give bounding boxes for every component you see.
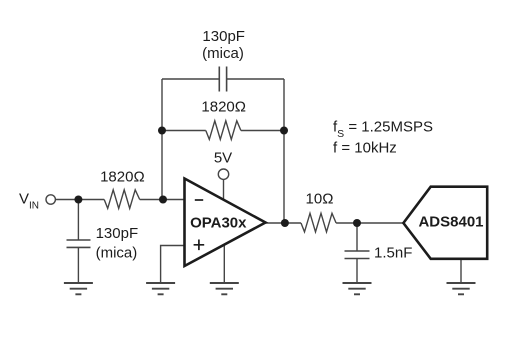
junction dot feedback resistor left xyxy=(158,127,166,135)
wire VIN to input node xyxy=(55,199,104,201)
wire ADC to ground xyxy=(460,259,462,283)
svg-text:f = 10kHz: f = 10kHz xyxy=(333,140,397,157)
wire feedback top right segment xyxy=(227,78,284,80)
wire op-amp negative supply to ground xyxy=(223,245,225,283)
svg-text:(mica): (mica) xyxy=(202,45,244,62)
svg-text:10Ω: 10Ω xyxy=(306,191,334,208)
wire shunt cap vertical bottom xyxy=(356,259,358,284)
wire noninverting input to ground xyxy=(161,246,185,284)
svg-text:(mica): (mica) xyxy=(96,244,138,261)
junction dot inverting node xyxy=(159,196,167,204)
wire op-amp output xyxy=(266,222,302,224)
wire input resistor to inverting node xyxy=(140,199,185,201)
capacitor C_SH 1.5nF plates xyxy=(345,251,370,259)
op-amp inverting input minus sign xyxy=(195,199,203,201)
svg-text:OPA30x: OPA30x xyxy=(190,215,247,232)
svg-text:1.5nF: 1.5nF xyxy=(374,245,412,262)
terminal 5V supply circle xyxy=(218,169,228,179)
wire shunt cap 1.5nF vertical top xyxy=(356,223,358,251)
wire output resistor to ADC xyxy=(336,222,403,224)
wire feedback resistor right lead xyxy=(241,130,284,132)
svg-text:ADS8401: ADS8401 xyxy=(418,214,483,231)
capacitor C_IN 130pF (mica) plates xyxy=(67,240,91,247)
svg-text:5V: 5V xyxy=(214,149,232,166)
op-amp noninverting input plus sign xyxy=(194,240,205,251)
resistor R_FB 1820 ohm zigzag xyxy=(206,121,241,140)
ground op-amp supply xyxy=(210,283,239,294)
svg-text:130pF: 130pF xyxy=(202,28,245,45)
svg-text:1820Ω: 1820Ω xyxy=(100,169,145,186)
ground input cap xyxy=(64,283,93,294)
junction dot RC node xyxy=(353,219,361,227)
capacitor C_FB 130pF (mica) plates xyxy=(219,67,226,92)
op-amp U1 OPA30x triangle xyxy=(185,179,266,267)
ground ADC xyxy=(447,283,476,294)
resistor R_IN 1820 ohm zigzag xyxy=(104,190,140,209)
junction dot feedback resistor right xyxy=(280,127,288,135)
junction dot input node xyxy=(74,196,82,204)
wire 5V to op-amp top xyxy=(223,179,225,200)
wire feedback top left segment xyxy=(162,78,219,80)
svg-text:130pF: 130pF xyxy=(96,225,139,242)
ADC U2 ADS8401 pentagon xyxy=(403,187,487,259)
svg-text:1820Ω: 1820Ω xyxy=(201,98,246,115)
wire input shunt cap vertical top xyxy=(77,200,79,241)
resistor R_OUT 10 ohm zigzag xyxy=(301,213,336,232)
terminal VIN open circle xyxy=(46,195,55,204)
ground noninverting input xyxy=(146,283,175,294)
wire feedback left vertical xyxy=(161,79,163,200)
junction dot output node xyxy=(281,219,289,227)
wire feedback right vertical xyxy=(283,79,285,223)
ground shunt cap xyxy=(343,283,372,294)
wire input shunt cap vertical bottom xyxy=(77,247,79,283)
wire feedback resistor left lead xyxy=(162,130,206,132)
